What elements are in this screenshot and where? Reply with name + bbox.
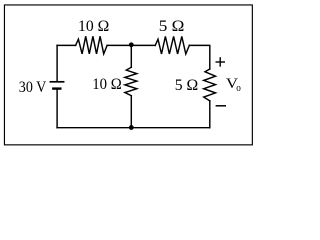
- wire left vertical bottom (battery to corner): [56, 90, 58, 128]
- wire R1 to node A: [107, 44, 131, 46]
- wire R2 to top-right corner down to R4: [189, 45, 210, 69]
- svg-text:10 Ω: 10 Ω: [92, 76, 122, 93]
- minus sign of Vo polarity: [216, 105, 226, 107]
- voltage source 30 V battery: [50, 82, 63, 89]
- svg-text:5 Ω: 5 Ω: [159, 18, 185, 35]
- svg-text:30 V: 30 V: [19, 79, 47, 96]
- resistor R1 10 ohm top-left zigzag: [76, 36, 108, 54]
- resistor R4 5 ohm right vertical zigzag: [204, 69, 216, 101]
- wire top segment left corner to R1: [57, 44, 76, 46]
- wire node A to R3: [130, 45, 132, 67]
- label Vo output voltage: [226, 76, 241, 94]
- resistor R3 10 ohm middle vertical zigzag: [125, 67, 137, 95]
- svg-text:5 Ω: 5 Ω: [175, 77, 199, 94]
- node A junction dot: [129, 42, 134, 47]
- wire node A to R2: [131, 44, 155, 46]
- resistor R2 5 ohm top-right zigzag: [155, 36, 189, 54]
- wire R4 to bottom-right corner: [209, 101, 211, 128]
- svg-text:10 Ω: 10 Ω: [78, 18, 109, 35]
- svg-text:o: o: [236, 83, 241, 94]
- wire bottom segment: [57, 127, 210, 129]
- wire R3 to node B: [130, 96, 132, 128]
- wire left vertical top (corner to battery): [56, 45, 58, 81]
- node B junction dot: [129, 125, 134, 130]
- plus sign of Vo polarity: [216, 57, 226, 66]
